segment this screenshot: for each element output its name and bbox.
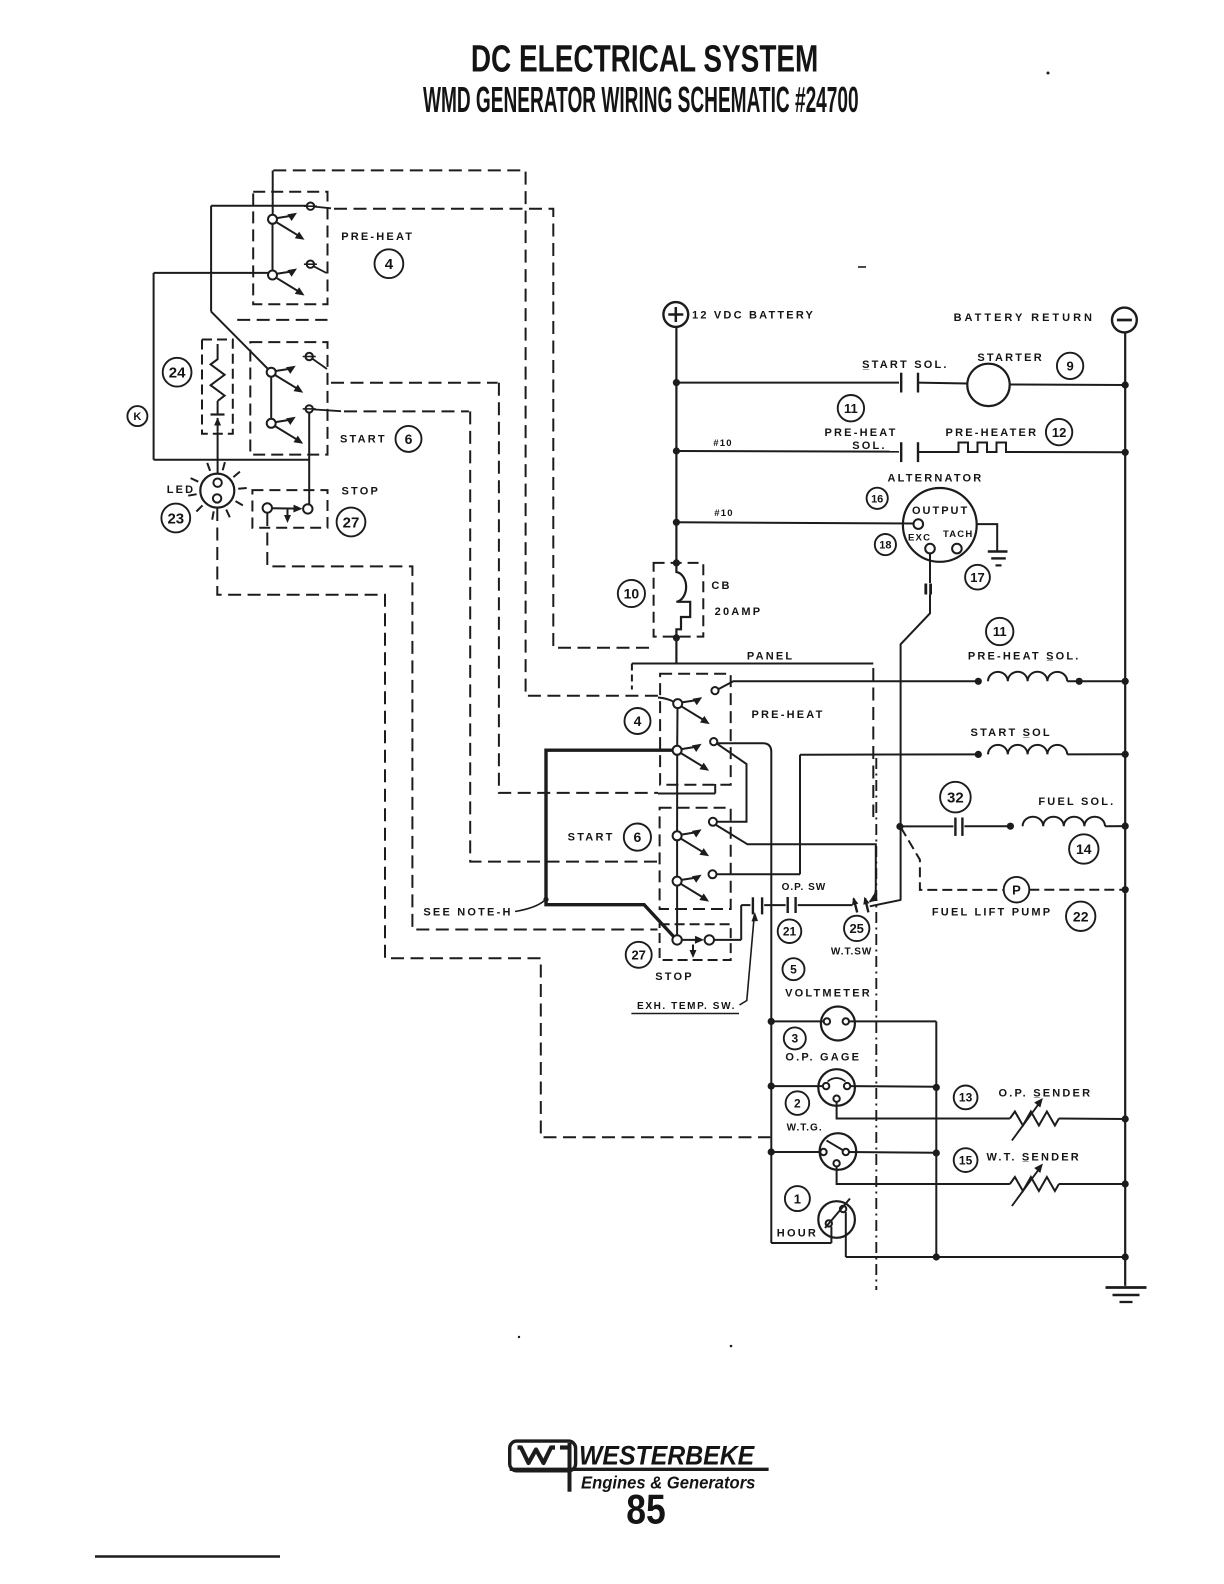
- svg-text:PRE-HEAT S̲OL.: PRE-HEAT S̲OL.: [968, 651, 1081, 663]
- svg-text:13: 13: [959, 1091, 973, 1105]
- svg-text:PRE-HEAT: PRE-HEAT: [341, 231, 414, 243]
- svg-text:27: 27: [343, 514, 360, 531]
- svg-text:14: 14: [1076, 841, 1092, 857]
- svg-text:32: 32: [947, 790, 964, 807]
- svg-text:15: 15: [959, 1153, 973, 1167]
- svg-text:9: 9: [1066, 359, 1073, 374]
- svg-text:K: K: [133, 411, 141, 423]
- svg-text:#10: #10: [713, 438, 732, 449]
- svg-text:20AMP: 20AMP: [715, 606, 763, 618]
- svg-text:BATTERY RETURN: BATTERY RETURN: [954, 312, 1095, 324]
- svg-text:4: 4: [385, 256, 394, 273]
- svg-text:WESTERBEKE: WESTERBEKE: [579, 1442, 755, 1471]
- svg-text:SEE NOTE-H: SEE NOTE-H: [423, 907, 512, 919]
- svg-text:W.T.SW: W.T.SW: [831, 947, 873, 958]
- svg-text:27: 27: [631, 947, 645, 962]
- svg-text:START: START: [340, 434, 387, 446]
- svg-text:WMD GENERATOR WIRING SCHEMATIC: WMD GENERATOR WIRING SCHEMATIC #24700: [423, 81, 859, 121]
- svg-text:Engines & Generators: Engines & Generators: [581, 1473, 755, 1492]
- svg-text:24: 24: [169, 365, 186, 382]
- svg-text:STOP: STOP: [342, 485, 381, 497]
- svg-text:12: 12: [1052, 425, 1066, 440]
- svg-text:W.T.G.: W.T.G.: [787, 1123, 823, 1134]
- svg-text:OUTPUT: OUTPUT: [912, 505, 969, 517]
- svg-text:5: 5: [790, 963, 797, 977]
- svg-text:23: 23: [167, 510, 184, 527]
- svg-text:CB: CB: [711, 580, 731, 592]
- svg-text:FUEL SOL.: FUEL SOL.: [1038, 796, 1115, 808]
- svg-text:SOL.: SOL.: [852, 440, 886, 452]
- svg-text:12 VDC BATTERY: 12 VDC BATTERY: [692, 310, 815, 322]
- svg-text:O.P. GAGE: O.P. GAGE: [785, 1052, 861, 1064]
- svg-text:O.P. S̲ENDER: O.P. S̲ENDER: [999, 1088, 1093, 1100]
- svg-text:PRE-HEAT: PRE-HEAT: [824, 427, 897, 439]
- svg-text:PRE-HEAT: PRE-HEAT: [751, 709, 824, 721]
- svg-text:PRE-HEATER: PRE-HEATER: [946, 427, 1039, 439]
- svg-text:START S̲OL: START S̲OL: [971, 727, 1052, 739]
- svg-text:STARTER: STARTER: [977, 352, 1044, 364]
- svg-text:25: 25: [849, 921, 863, 936]
- svg-text:2: 2: [794, 1096, 801, 1110]
- svg-text:PANEL: PANEL: [747, 651, 794, 663]
- svg-text:6: 6: [405, 431, 413, 447]
- svg-text:22: 22: [1073, 908, 1089, 924]
- svg-text:EXC: EXC: [908, 533, 931, 544]
- svg-text:W.T. S̲ENDER: W.T. S̲ENDER: [986, 1152, 1081, 1164]
- svg-text:85: 85: [626, 1487, 665, 1533]
- svg-text:16: 16: [871, 493, 883, 505]
- svg-text:S̲TART SOL.: S̲TART SOL.: [862, 359, 949, 371]
- svg-text:21: 21: [783, 925, 797, 939]
- svg-text:P: P: [1012, 882, 1021, 897]
- svg-text:#10: #10: [714, 508, 733, 519]
- svg-text:3: 3: [791, 1032, 798, 1046]
- svg-text:FUEL LIFT PUMP: FUEL LIFT PUMP: [932, 907, 1052, 919]
- svg-text:ALTERNATOR: ALTERNATOR: [888, 473, 984, 485]
- svg-text:START: START: [568, 831, 615, 843]
- svg-text:VOLTMETER: VOLTMETER: [785, 988, 872, 1000]
- svg-text:17: 17: [970, 570, 984, 585]
- svg-text:HOUR: HOUR: [777, 1228, 818, 1240]
- svg-text:11: 11: [844, 401, 858, 416]
- svg-text:TACH: TACH: [943, 529, 973, 540]
- svg-text:O.P. SW: O.P. SW: [782, 882, 827, 893]
- svg-text:DC ELECTRICAL SYSTEM: DC ELECTRICAL SYSTEM: [471, 38, 819, 80]
- svg-text:STOP: STOP: [655, 971, 694, 983]
- svg-text:EXH. TEMP. SW.: EXH. TEMP. SW.: [637, 1001, 736, 1012]
- svg-text:1: 1: [794, 1191, 801, 1206]
- svg-text:11: 11: [993, 624, 1007, 639]
- svg-text:LED: LED: [167, 484, 196, 496]
- svg-text:6: 6: [634, 829, 642, 845]
- svg-text:10: 10: [624, 586, 640, 602]
- svg-text:4: 4: [634, 713, 642, 729]
- svg-text:18: 18: [879, 540, 891, 552]
